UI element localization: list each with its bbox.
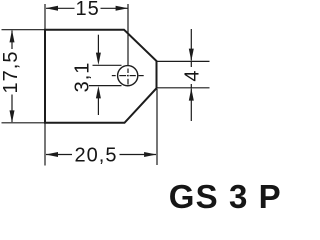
svg-text:17,5: 17,5 [0, 51, 22, 94]
svg-text:4: 4 [182, 69, 204, 81]
svg-text:GS 3 P: GS 3 P [169, 178, 280, 211]
svg-text:3,1: 3,1 [72, 62, 94, 93]
svg-text:15: 15 [75, 0, 99, 20]
svg-text:20,5: 20,5 [75, 145, 118, 167]
